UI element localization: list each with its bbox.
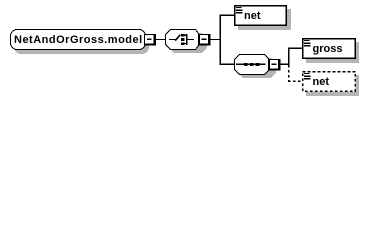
- net element box: [235, 6, 287, 26]
- net element icon: [236, 7, 243, 14]
- trunk2 vertical dashed (optional child): [288, 65, 290, 82]
- optional net element dashed box: [303, 72, 356, 92]
- svg-text:net: net: [244, 10, 261, 22]
- gross element shadow: [306, 42, 359, 63]
- expand box B (collapse toggle on choice): [199, 34, 211, 46]
- wire branch to net element: [220, 15, 235, 16]
- sequence icon (dots in a row): [236, 63, 266, 66]
- wire sequence to trunk2: [281, 64, 290, 65]
- dashed wire to optional net element: [288, 80, 303, 82]
- choice compositor shadow: [169, 33, 207, 53]
- model group shadow: [14, 33, 149, 54]
- model group NetAndOrGross.model rounded box: [11, 30, 146, 50]
- trunk2 vertical solid (sequence children, up to gross): [288, 48, 289, 67]
- optional net element shadow: [306, 75, 359, 96]
- choice compositor octagon: [166, 30, 199, 50]
- gross element box: [303, 39, 356, 59]
- svg-text:net: net: [313, 76, 330, 88]
- wire branch to sequence: [220, 64, 235, 65]
- svg-text:NetAndOrGross.model: NetAndOrGross.model: [14, 34, 143, 46]
- svg-text:gross: gross: [313, 43, 343, 55]
- wire model to choice: [156, 39, 166, 40]
- wire trunk2 to gross element: [288, 48, 303, 49]
- choice icon (switch selecting among alternatives): [169, 34, 194, 45]
- optional net element icon: [304, 73, 311, 80]
- expand box C (collapse toggle on sequence): [269, 59, 281, 71]
- sequence compositor octagon: [235, 55, 269, 75]
- net element shadow: [238, 9, 291, 30]
- wire choice to branch trunk: [211, 39, 221, 40]
- branch trunk vertical (choice children): [220, 15, 221, 65]
- expand box A (collapse toggle on model group): [144, 34, 156, 46]
- choice icon switch arm (diagonal): [175, 35, 180, 41]
- gross element icon: [304, 40, 311, 47]
- sequence compositor shadow: [238, 58, 276, 78]
